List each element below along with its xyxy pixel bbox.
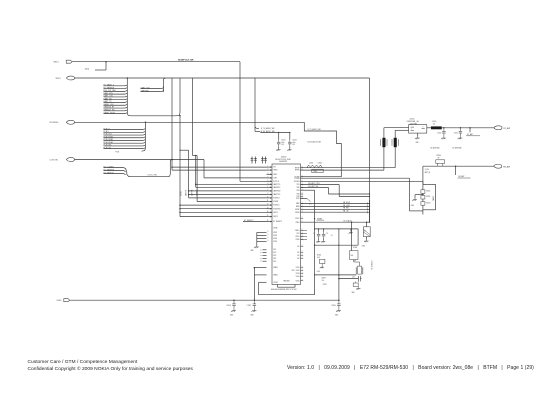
wire BT ctrl <box>75 159 205 161</box>
svg-text:TXDBG: TXDBG <box>294 178 300 180</box>
capacitor C2330 <box>338 278 340 280</box>
pin FMOP <box>301 208 304 210</box>
connector X2500 BT antenna <box>494 126 502 130</box>
wire bus staircase D <box>196 156 198 202</box>
wire audio WB drop <box>254 78 256 131</box>
svg-text:3: 3 <box>302 269 303 271</box>
svg-text:3: 3 <box>302 195 303 197</box>
wire RF N <box>301 169 384 171</box>
svg-text:3: 3 <box>302 279 303 281</box>
svg-text:TM1: TM1 <box>297 184 300 186</box>
NC pin group to gnd <box>259 231 267 233</box>
pin PCMOUT <box>267 197 273 199</box>
svg-text:XPCM2400: XPCM2400 <box>50 122 59 124</box>
svg-text:NC: NC <box>297 246 300 248</box>
pin UARTRTS <box>267 186 273 188</box>
pin VXO <box>301 232 304 234</box>
svg-text:3: 3 <box>302 272 303 274</box>
svg-text:LDO: LDO <box>317 257 321 259</box>
pin FMIN <box>301 205 304 207</box>
svg-text:SLEEPCLK 32K: SLEEPCLK 32K <box>178 59 194 61</box>
node FM_ANT label <box>455 165 457 167</box>
svg-text:GND: GND <box>317 271 320 273</box>
wire XTAL net <box>301 221 370 223</box>
svg-text:3: 3 <box>302 254 303 256</box>
svg-text:VDDIO: VDDIO <box>273 282 279 284</box>
svg-text:13: 13 <box>267 207 269 209</box>
wire RF P <box>301 167 396 169</box>
capacitor row top-left of IC <box>251 157 253 164</box>
capacitor C2301 <box>278 132 279 133</box>
wire SLEEPCLK <box>72 61 240 63</box>
svg-text:CTRL: CTRL <box>273 178 277 180</box>
svg-text:nc: nc <box>260 252 262 254</box>
svg-text:B_TX_AUDIO_NB: B_TX_AUDIO_NB <box>308 128 321 131</box>
wire VIO long vertical <box>369 78 371 200</box>
ground divider <box>422 194 424 196</box>
svg-text:11: 11 <box>267 200 269 202</box>
wire FM_ROUT <box>301 203 370 205</box>
svg-text:3: 3 <box>302 238 303 240</box>
svg-text:GND: GND <box>230 314 233 316</box>
svg-text:2n2: 2n2 <box>433 124 436 126</box>
pin TM4 <box>301 193 304 195</box>
svg-text:3: 3 <box>302 229 303 231</box>
svg-text:Z2500: Z2500 <box>410 118 415 120</box>
pin RFIOP <box>301 167 304 169</box>
wire osc right vertical <box>338 229 340 300</box>
svg-text:BT_ANTGND: BT_ANTGND <box>453 146 463 149</box>
pin VTUNE <box>301 176 304 178</box>
pin RFION <box>301 169 304 171</box>
IC bottom pin stubs <box>277 285 279 288</box>
svg-text:14: 14 <box>267 211 269 213</box>
svg-text:GND: GND <box>335 314 338 316</box>
svg-text:nc: nc <box>260 255 262 257</box>
svg-text:R24: R24 <box>351 255 354 257</box>
svg-text:VDDC: VDDC <box>295 218 300 220</box>
svg-text:10: 10 <box>267 197 269 199</box>
svg-text:VSSA: VSSA <box>273 227 277 230</box>
capacitor C2500 <box>443 127 445 129</box>
svg-text:LMSP35FA__2A: LMSP35FA__2A <box>407 120 420 123</box>
pin UARTRXD <box>267 190 273 192</box>
svg-text:3: 3 <box>302 193 303 195</box>
node junction J2400 tap <box>105 61 107 63</box>
svg-text:NC1: NC1 <box>273 249 276 251</box>
wire VIO main <box>75 77 370 79</box>
footer right <box>287 365 534 371</box>
svg-text:X_BTCTRL: X_BTCTRL <box>50 159 59 161</box>
svg-text:VIO: VIO <box>273 167 276 169</box>
svg-text:R2500: R2500 <box>437 155 442 157</box>
pin TM5 <box>301 196 304 198</box>
svg-text:PCMSYNC: PCMSYNC <box>273 208 281 210</box>
pin VSS4 <box>301 276 304 278</box>
svg-text:12: 12 <box>267 204 269 206</box>
wire divider bottom stub <box>422 210 424 215</box>
svg-text:R2502: R2502 <box>426 196 430 198</box>
IC N2300 BLUETOOTH body <box>272 164 301 285</box>
svg-text:V2300: V2300 <box>353 247 358 249</box>
crystal B2301 <box>338 274 340 276</box>
svg-text:FM_ANT: FM_ANT <box>458 175 464 178</box>
svg-text:FMOP: FMOP <box>295 209 299 211</box>
svg-text:3: 3 <box>302 266 303 268</box>
pin GPIO2 <box>267 211 273 213</box>
pin INTX <box>301 197 304 199</box>
svg-text:6: 6 <box>268 231 269 233</box>
svg-text:VSS3: VSS3 <box>273 235 277 237</box>
svg-text:B_RX_AUDIO_NB: B_RX_AUDIO_NB <box>308 140 321 143</box>
svg-text:B1: B1 <box>355 260 357 262</box>
svg-text:16V: 16V <box>281 144 284 146</box>
svg-text:NC4: NC4 <box>273 258 276 260</box>
svg-text:VSS4: VSS4 <box>296 276 300 278</box>
svg-text:BT_ANTGND: BT_ANTGND <box>431 146 441 149</box>
capacitor C2321 <box>323 228 324 229</box>
svg-text:FM_LIN: FM_LIN <box>343 211 348 213</box>
svg-text:ANT_IN: ANT_IN <box>425 171 430 174</box>
pin BT_RESETX <box>267 221 273 223</box>
wire bus staircase E <box>179 150 180 151</box>
svg-text:TM4: TM4 <box>297 194 300 196</box>
wire audio WB rail <box>260 132 290 134</box>
svg-text:XBT01: XBT01 <box>56 78 61 80</box>
pin VSS1 <box>301 266 304 268</box>
svg-text:C2302: C2302 <box>318 163 323 165</box>
svg-text:3: 3 <box>302 232 303 234</box>
capacitor C2501 <box>460 127 462 129</box>
wire balun to filter <box>384 127 409 129</box>
svg-text:TM3: TM3 <box>297 190 300 192</box>
wire FM_LIN <box>301 211 370 213</box>
svg-text:PCM: PCM <box>116 151 120 153</box>
svg-text:16: 16 <box>267 220 269 222</box>
pin NC <box>301 254 304 256</box>
svg-text:NC: NC <box>297 255 300 257</box>
svg-text:0R: 0R <box>438 158 440 160</box>
svg-text:GND: GND <box>411 205 414 207</box>
resistor T2300 <box>312 169 323 172</box>
svg-text:TM5: TM5 <box>297 196 300 198</box>
svg-text:2048 EDR: 2048 EDR <box>279 161 288 163</box>
svg-text:R2302: R2302 <box>322 277 326 279</box>
wire bus vertical B <box>179 116 181 217</box>
svg-text:PCMOUT: PCMOUT <box>273 198 280 200</box>
svg-text:BT_ANT: BT_ANT <box>504 127 512 130</box>
svg-text:BT_RESETX: BT_RESETX <box>273 221 282 223</box>
pin XTALI <box>301 221 304 223</box>
svg-text:3: 3 <box>302 245 303 247</box>
svg-text:PCMIN: PCMIN <box>273 201 278 203</box>
wire wrap right long <box>301 189 315 191</box>
wire FM antenna <box>423 165 494 167</box>
svg-text:FM_LOUT: FM_LOUT <box>343 205 350 207</box>
svg-text:UARTTX: UARTTX <box>184 190 187 196</box>
svg-text:FMANT: FMANT <box>432 196 435 201</box>
pin PCMIN <box>267 201 273 203</box>
svg-text:8400-A1-BCM2048 4313-37 U S02: 8400-A1-BCM2048 4313-37 U S02 <box>271 288 297 291</box>
svg-text:RFION: RFION <box>295 170 300 172</box>
svg-text:GPIO3: GPIO3 <box>273 216 278 218</box>
svg-text:NC: NC <box>297 252 300 254</box>
pin PCMSYNC <box>267 208 273 210</box>
svg-text:X_BT_CTRL: X_BT_CTRL <box>148 175 158 177</box>
pin NC <box>301 246 304 248</box>
connector X2501 FM antenna <box>494 164 502 168</box>
pin VIO <box>267 166 273 168</box>
footer left <box>28 360 193 374</box>
svg-text:GENIO: GENIO <box>180 190 182 196</box>
wire osc rail mid <box>315 244 359 246</box>
pin GPIO3 <box>267 216 273 218</box>
svg-text:XMIC1: XMIC1 <box>54 61 59 63</box>
svg-text:X_FM: X_FM <box>425 169 430 171</box>
svg-text:L2301: L2301 <box>309 163 313 165</box>
wire FM_LOUT <box>301 205 370 207</box>
pin UARTCTS <box>267 183 273 185</box>
svg-text:VSS3: VSS3 <box>296 273 300 275</box>
svg-text:B_TX_AUDIO_WB: B_TX_AUDIO_WB <box>261 127 274 130</box>
svg-text:6: 6 <box>268 240 269 242</box>
svg-text:SLPCLK: SLPCLK <box>273 181 279 183</box>
pin PCMCLK <box>267 204 273 206</box>
transistor V2300 <box>351 221 353 223</box>
svg-text:CLKREQ: CLKREQ <box>197 189 199 196</box>
svg-text:nc: nc <box>260 249 262 251</box>
svg-text:VSS: VSS <box>292 270 295 272</box>
svg-text:10k: 10k <box>322 280 325 282</box>
balun X2300 <box>383 128 385 170</box>
capacitor C2303 <box>289 132 290 133</box>
svg-text:VSS1: VSS1 <box>296 267 300 269</box>
svg-text:FM_RIN: FM_RIN <box>343 208 349 210</box>
pin TM3 <box>301 189 304 191</box>
svg-text:BT_ANT: BT_ANT <box>467 133 473 136</box>
svg-text:NC3: NC3 <box>273 255 276 257</box>
wire FM_RIN <box>301 208 370 210</box>
svg-text:GPIO2: GPIO2 <box>273 212 278 214</box>
svg-text:XRST: XRST <box>273 174 277 176</box>
svg-text:PCMCLK: PCMCLK <box>273 205 279 207</box>
svg-text:R2501: R2501 <box>426 191 430 193</box>
wire osc rail top <box>315 228 359 230</box>
resistor chain R2501-03 <box>423 183 436 185</box>
wire SLEEPCLK vertical <box>239 62 241 182</box>
svg-text:C2500: C2500 <box>437 132 441 134</box>
svg-text:16V: 16V <box>292 144 295 146</box>
pin RXDBG <box>301 180 304 182</box>
svg-text:nc: nc <box>260 258 262 260</box>
svg-text:BT_RESETX: BT_RESETX <box>244 220 254 222</box>
svg-text:GND: GND <box>416 142 419 144</box>
wire PCM stepped to N2300 <box>301 122 342 176</box>
pin NC <box>301 257 304 259</box>
svg-text:J2400: J2400 <box>85 68 90 70</box>
svg-text:VREG: VREG <box>273 170 278 172</box>
resistor R2331 <box>353 283 358 286</box>
svg-text:BT_XTAL26: BT_XTAL26 <box>344 220 352 223</box>
svg-text:VSS5: VSS5 <box>273 241 277 243</box>
pin TM1 <box>301 184 304 186</box>
inductor L2301 matching <box>307 165 322 168</box>
svg-text:RXDBG: RXDBG <box>294 181 300 183</box>
svg-text:FM_ROUT: FM_ROUT <box>343 202 350 204</box>
svg-text:T2300: T2300 <box>313 171 317 173</box>
pin VSSX <box>301 239 304 241</box>
wire AGND main <box>70 299 339 301</box>
bus vertical block1 <box>126 84 128 113</box>
svg-text:C2307: C2307 <box>247 305 251 307</box>
svg-text:GND: GND <box>251 250 254 252</box>
pin stubs NC column <box>263 249 267 251</box>
node bus tap block1 <box>127 77 129 79</box>
svg-text:C2303: C2303 <box>292 140 296 142</box>
wire lower pins to AGND <box>254 267 266 269</box>
svg-text:100n: 100n <box>292 142 295 144</box>
svg-text:15: 15 <box>267 215 269 217</box>
svg-text:VSS2: VSS2 <box>296 270 300 272</box>
svg-text:3: 3 <box>302 257 303 259</box>
wire wrap pin 282 <box>259 281 267 283</box>
pin TM2 <box>301 187 304 189</box>
pins into osc <box>301 229 308 231</box>
wire FM RF B <box>301 180 423 182</box>
svg-text:GND: GND <box>362 245 365 247</box>
svg-text:VBAT1: VBAT1 <box>273 266 278 269</box>
svg-text:X1: X1 <box>331 235 333 237</box>
capacitor C2306 <box>233 299 235 301</box>
pin CTRL <box>267 177 273 179</box>
svg-text:VSS4: VSS4 <box>273 238 277 240</box>
svg-text:N2301: N2301 <box>317 255 321 257</box>
svg-text:NC5: NC5 <box>273 261 276 263</box>
capacitor stub top rail gnd <box>350 228 351 229</box>
svg-text:VSSX: VSSX <box>295 239 299 241</box>
svg-text:UARTRTS: UARTRTS <box>273 186 280 189</box>
svg-text:UARTTXD: UARTTXD <box>273 193 281 196</box>
pin UARTTXD <box>267 194 273 196</box>
capacitor C2307 <box>254 299 256 301</box>
stub arrow pin 198 <box>301 197 308 199</box>
bus block3 <box>126 169 131 177</box>
svg-text:100n: 100n <box>281 142 284 144</box>
svg-text:6: 6 <box>268 234 269 236</box>
pin FMON <box>301 211 304 213</box>
svg-text:C2306: C2306 <box>226 305 230 307</box>
svg-text:C2331: C2331 <box>323 284 327 286</box>
svg-text:6: 6 <box>268 237 269 239</box>
svg-text:XTALI: XTALI <box>295 221 300 224</box>
svg-text:3: 3 <box>302 217 303 219</box>
svg-text:NC2: NC2 <box>273 252 276 254</box>
svg-text:C5: C5 <box>326 233 328 235</box>
wire bus staircase C <box>192 78 194 156</box>
svg-text:FMIN: FMIN <box>296 206 300 208</box>
svg-text:nc: nc <box>260 261 262 263</box>
pin VDDC <box>301 218 304 220</box>
pin XTALO <box>301 229 304 231</box>
pin FMIP <box>301 203 304 205</box>
svg-text:XTALO: XTALO <box>295 229 301 232</box>
capacitor C2308 <box>338 299 340 301</box>
pin TXDBG <box>301 177 304 179</box>
svg-text:INTX: INTX <box>296 198 299 200</box>
svg-text:NC: NC <box>297 258 300 260</box>
svg-text:C33: C33 <box>352 276 355 278</box>
svg-text:TM2: TM2 <box>297 187 300 189</box>
svg-text:C2301: C2301 <box>281 140 285 142</box>
svg-text:3: 3 <box>302 275 303 277</box>
svg-text:L2500: L2500 <box>432 121 436 123</box>
svg-text:VXO: VXO <box>296 233 300 235</box>
svg-text:C2308: C2308 <box>331 305 335 307</box>
wire BT_RESETX stub left <box>243 221 267 223</box>
svg-text:FMIP: FMIP <box>296 203 300 205</box>
svg-text:3: 3 <box>302 235 303 237</box>
svg-text:VBAT2: VBAT2 <box>273 274 278 277</box>
svg-text:C2501: C2501 <box>454 132 458 134</box>
wire bus vertical A <box>171 78 173 170</box>
wire FM feed down <box>422 166 424 184</box>
svg-text:UARTRXD: UARTRXD <box>273 190 281 193</box>
pin VSS5 <box>301 280 304 282</box>
svg-text:VDDX: VDDX <box>295 236 299 238</box>
svg-text:XGND: XGND <box>57 300 63 302</box>
pin XRST <box>267 173 273 175</box>
svg-text:C4: C4 <box>313 233 315 235</box>
svg-text:RFIOP: RFIOP <box>295 167 300 169</box>
svg-text:B2: B2 <box>364 230 366 232</box>
pin NC <box>301 251 304 253</box>
svg-text:PADGND: PADGND <box>284 280 291 283</box>
pin VSS2 <box>301 270 304 272</box>
svg-text:VSS2: VSS2 <box>273 232 277 234</box>
wire FM RF A <box>301 177 410 179</box>
svg-text:VSS5: VSS5 <box>296 280 300 282</box>
wire to BT antenna <box>427 127 431 129</box>
svg-text:3: 3 <box>302 251 303 253</box>
svg-text:GND: GND <box>352 292 355 294</box>
wire PCM line <box>75 121 305 123</box>
svg-text:FM_ANT: FM_ANT <box>503 165 511 168</box>
pin SLPCLK <box>267 180 273 182</box>
crystal B2300 <box>366 222 368 227</box>
svg-text:R2503: R2503 <box>426 202 430 204</box>
ground filter <box>417 133 419 137</box>
svg-text:GND: GND <box>250 314 253 316</box>
svg-text:UARTCTS: UARTCTS <box>273 183 280 186</box>
pin VSS3 <box>301 273 304 275</box>
pin VDDX <box>301 235 304 237</box>
node BT_ANT label <box>469 127 471 129</box>
svg-text:BT_XTALOUT: BT_XTALOUT <box>370 260 373 269</box>
svg-text:FMON: FMON <box>295 212 299 214</box>
capacitor C2320 <box>318 228 319 229</box>
pin VREG <box>267 169 273 171</box>
